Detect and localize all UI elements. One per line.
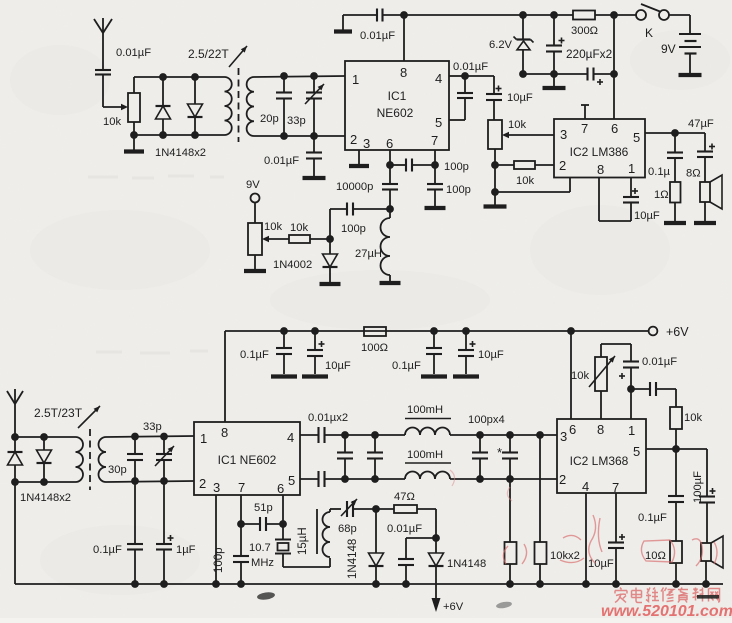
svg-text:10000p: 10000p xyxy=(336,181,373,193)
svg-text:100p: 100p xyxy=(446,184,471,196)
svg-text:47µF: 47µF xyxy=(688,118,714,130)
svg-text:7: 7 xyxy=(431,133,438,148)
svg-text:1: 1 xyxy=(352,72,359,87)
svg-text:0.1µF: 0.1µF xyxy=(392,360,421,372)
svg-text:9V: 9V xyxy=(661,42,676,56)
svg-text:0.01µx2: 0.01µx2 xyxy=(308,412,348,424)
svg-text:10k: 10k xyxy=(103,116,121,128)
svg-text:2.5/22T: 2.5/22T xyxy=(188,47,229,61)
svg-text:5: 5 xyxy=(633,444,640,459)
svg-text:1N4148x2: 1N4148x2 xyxy=(20,492,71,504)
svg-text:8: 8 xyxy=(400,65,407,80)
svg-text:10kx2: 10kx2 xyxy=(550,550,580,562)
svg-text:15µH: 15µH xyxy=(297,527,309,555)
svg-text:0.1µF: 0.1µF xyxy=(638,512,667,524)
svg-text:10k: 10k xyxy=(516,175,534,187)
svg-text:1N4148: 1N4148 xyxy=(447,558,486,570)
svg-text:1N4148x2: 1N4148x2 xyxy=(155,147,206,159)
svg-text:IC2 LM368: IC2 LM368 xyxy=(570,454,629,468)
svg-text:4: 4 xyxy=(435,71,442,86)
svg-text:51p: 51p xyxy=(254,502,273,514)
svg-text:27µH: 27µH xyxy=(355,248,382,260)
svg-text:6: 6 xyxy=(569,422,576,437)
svg-text:5: 5 xyxy=(435,115,442,130)
svg-text:100mH: 100mH xyxy=(407,449,443,461)
svg-text:5: 5 xyxy=(633,130,640,145)
svg-text:0.01µF: 0.01µF xyxy=(360,30,395,42)
svg-text:10µF: 10µF xyxy=(325,360,351,372)
svg-text:3: 3 xyxy=(213,480,220,495)
svg-text:10k: 10k xyxy=(684,412,702,424)
svg-text:100p: 100p xyxy=(444,161,469,173)
svg-text:100µF: 100µF xyxy=(692,471,704,503)
svg-text:*: * xyxy=(497,445,502,460)
svg-text:7: 7 xyxy=(612,480,619,495)
svg-text:3: 3 xyxy=(363,136,370,151)
svg-text:10Ω: 10Ω xyxy=(645,550,666,562)
svg-text:10µF: 10µF xyxy=(634,210,660,222)
svg-text:8Ω: 8Ω xyxy=(686,168,701,180)
svg-text:47Ω: 47Ω xyxy=(394,491,415,503)
svg-text:1: 1 xyxy=(628,161,635,176)
svg-text:+6V: +6V xyxy=(666,325,689,339)
svg-text:10k: 10k xyxy=(264,221,282,233)
svg-text:10k: 10k xyxy=(290,222,308,234)
svg-text:20p: 20p xyxy=(260,113,279,125)
svg-text:10.7: 10.7 xyxy=(249,542,271,554)
svg-text:3: 3 xyxy=(560,429,567,444)
svg-text:4: 4 xyxy=(287,430,294,445)
svg-text:8: 8 xyxy=(221,425,228,440)
svg-text:1: 1 xyxy=(200,431,207,446)
svg-text:1: 1 xyxy=(628,423,635,438)
svg-text:220µFx2: 220µFx2 xyxy=(566,47,612,61)
svg-text:6.2V: 6.2V xyxy=(489,39,513,51)
svg-text:7: 7 xyxy=(238,480,245,495)
svg-text:0.1µ: 0.1µ xyxy=(648,166,671,178)
svg-text:6: 6 xyxy=(277,481,284,496)
svg-text:8: 8 xyxy=(597,162,604,177)
svg-text:10k: 10k xyxy=(571,370,589,382)
svg-text:8: 8 xyxy=(597,422,604,437)
svg-text:K: K xyxy=(645,26,653,40)
svg-text:IC1: IC1 xyxy=(388,89,407,103)
svg-text:1N4002: 1N4002 xyxy=(273,259,312,271)
svg-text:5: 5 xyxy=(288,473,295,488)
svg-text:100px4: 100px4 xyxy=(468,414,505,426)
svg-text:0.1µF: 0.1µF xyxy=(240,349,269,361)
svg-text:6: 6 xyxy=(386,136,393,151)
svg-text:+6V: +6V xyxy=(443,601,464,613)
svg-text:0.01µF: 0.01µF xyxy=(264,155,299,167)
svg-text:0.1µF: 0.1µF xyxy=(93,544,122,556)
svg-text:30p: 30p xyxy=(108,464,127,476)
svg-text:0.01µF: 0.01µF xyxy=(642,356,677,368)
svg-text:2: 2 xyxy=(559,472,566,487)
svg-text:33p: 33p xyxy=(143,421,162,433)
svg-text:IC1 NE602: IC1 NE602 xyxy=(218,453,277,467)
svg-text:NE602: NE602 xyxy=(377,106,414,120)
svg-text:9V: 9V xyxy=(246,179,260,191)
svg-text:2.5T/23T: 2.5T/23T xyxy=(34,406,83,420)
svg-text:3: 3 xyxy=(560,127,567,142)
svg-text:1N4148: 1N4148 xyxy=(347,539,359,579)
svg-text:68p: 68p xyxy=(338,523,357,535)
svg-text:4: 4 xyxy=(582,479,589,494)
svg-text:0.01µF: 0.01µF xyxy=(453,61,488,73)
svg-text:7: 7 xyxy=(581,121,588,136)
svg-text:www.520101.com: www.520101.com xyxy=(601,603,732,618)
svg-text:10µF: 10µF xyxy=(478,349,504,361)
svg-text:100p: 100p xyxy=(213,547,225,573)
svg-text:10k: 10k xyxy=(508,119,526,131)
svg-text:100p: 100p xyxy=(341,223,366,235)
svg-text:0.01µF: 0.01µF xyxy=(387,523,422,535)
svg-text:10µF: 10µF xyxy=(507,92,533,104)
svg-text:0.01µF: 0.01µF xyxy=(116,47,151,59)
svg-text:IC2 LM386: IC2 LM386 xyxy=(570,145,629,159)
svg-text:1µF: 1µF xyxy=(176,544,196,556)
svg-text:2: 2 xyxy=(199,476,206,491)
svg-text:33p: 33p xyxy=(287,115,306,127)
svg-text:6: 6 xyxy=(611,121,618,136)
svg-text:2: 2 xyxy=(559,158,566,173)
svg-text:2: 2 xyxy=(350,132,357,147)
svg-text:MHz: MHz xyxy=(251,557,274,569)
svg-text:300Ω: 300Ω xyxy=(571,25,598,37)
svg-text:100mH: 100mH xyxy=(407,404,443,416)
svg-text:1Ω: 1Ω xyxy=(654,189,669,201)
svg-text:100Ω: 100Ω xyxy=(361,342,388,354)
